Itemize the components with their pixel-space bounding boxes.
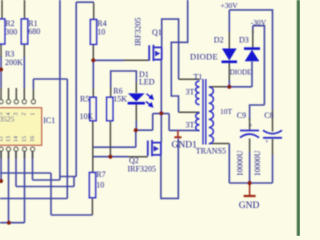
svg-text:DIODE: DIODE	[230, 69, 252, 77]
pin Q1 gate	[124, 59, 149, 61]
wire Q1 drain loop	[162, 19, 179, 79]
black component pins	[1, 0, 273, 215]
wire horizontal y186.5	[16, 186, 74, 188]
wire pin5 top stub blue	[32, 79, 34, 89]
svg-text:4: 4	[6, 113, 12, 116]
wire LED cathode to junction	[135, 121, 137, 130]
pin R4 top	[93, 3, 95, 20]
capacitor C8	[263, 130, 282, 133]
svg-text:GND1: GND1	[172, 141, 198, 151]
resistor R5	[90, 97, 96, 120]
wire pin13 vertical x8.5	[8, 151, 10, 223]
pin Q2 gate	[128, 156, 148, 158]
svg-text:10000U: 10000U	[253, 150, 262, 176]
wire secondary top y86.8	[226, 86, 252, 88]
wire horizontal y180 pin16 to x60	[33, 179, 60, 181]
wire C8 bottom	[272, 155, 274, 183]
svg-text:10: 10	[97, 28, 105, 37]
wire D2 cathode down to secondary	[228, 80, 230, 87]
node D2/secondary junction	[227, 85, 231, 89]
wire horizontal y2.2 to R4 column	[76, 1, 94, 3]
pin C9 column	[249, 118, 251, 152]
node pin12 junction	[0, 179, 3, 183]
svg-text:14: 14	[13, 136, 19, 142]
wire horizontal y176.5	[60, 176, 76, 178]
pin D2 bottom	[228, 63, 230, 80]
svg-text:-30V: -30V	[251, 18, 267, 27]
resistor R7	[89, 173, 95, 198]
svg-text:R5: R5	[80, 94, 89, 103]
wire Q2 source down U shape	[161, 139, 178, 199]
wire Q1 source vertical	[160, 60, 162, 143]
diode D2	[222, 49, 237, 61]
svg-text:12: 12	[0, 136, 4, 142]
pin above R2	[1, 0, 3, 19]
wire pin12 vertical x1	[0, 151, 2, 181]
svg-text:+: +	[265, 138, 269, 145]
wire Q1 gate net from R4 column	[93, 59, 124, 61]
wire horizontal y222.7	[0, 222, 25, 224]
wire: middle column	[93, 0, 200, 198]
svg-text:10000U: 10000U	[236, 150, 245, 176]
node bottom rail junction	[7, 221, 11, 225]
svg-text:1: 1	[31, 113, 37, 116]
svg-text:LED: LED	[139, 78, 155, 87]
wire -30V to D3	[253, 26, 265, 105]
svg-text:C9: C9	[237, 111, 246, 120]
transformer T1 core	[203, 79, 206, 145]
wire horizontal y113.6	[153, 113, 169, 115]
wire horizontal y79 from pin5 to x67.3	[33, 78, 67, 80]
wire vertical x67.3 from y79 to y198.5	[66, 79, 68, 199]
LED D1	[128, 93, 145, 101]
pin R5 bottom / R7 top column	[92, 121, 94, 173]
IC1 yellow box	[0, 108, 42, 145]
wire pin14 vertical x16	[15, 151, 17, 187]
wire vertical x152.7	[152, 114, 154, 131]
capacitor C9	[240, 130, 259, 132]
IC top pin circles	[0, 100, 35, 104]
svg-text:C8: C8	[264, 111, 273, 120]
wire C9 bottom	[249, 152, 251, 183]
pin IC bottom stubs	[1, 151, 33, 158]
svg-text:+: +	[249, 122, 253, 129]
wire pin16 vertical x32.5	[32, 151, 34, 180]
svg-text:Q2: Q2	[129, 156, 139, 165]
wire R4 to R5 column blue segment	[92, 59, 94, 89]
svg-text:3: 3	[14, 113, 20, 116]
wire horizontal y173	[0, 172, 51, 174]
svg-text:10T: 10T	[220, 107, 233, 116]
wire bottom rail y183	[229, 182, 272, 184]
svg-text:3T: 3T	[186, 87, 195, 96]
svg-text:300: 300	[5, 27, 17, 36]
node C9/GND junction	[248, 181, 252, 185]
transformer primary lower coil 3T	[196, 113, 200, 131]
wire horizontal y198.5 left edge to x67.3	[0, 198, 67, 200]
svg-text:15: 15	[22, 136, 28, 142]
wire: blue verticals left column	[0, 0, 94, 223]
transformer primary upper coil 3T	[196, 81, 200, 105]
wire jog to C9	[250, 105, 265, 120]
pin transformer center tap	[179, 111, 200, 113]
svg-text:D2: D2	[214, 35, 224, 44]
svg-text:10K: 10K	[80, 112, 94, 121]
svg-text:IRF3205: IRF3205	[128, 165, 156, 174]
node Q1 source junction	[159, 111, 163, 115]
svg-text:R7: R7	[96, 170, 105, 179]
wire jog vertical x74	[73, 177, 75, 187]
pin LED bottom	[135, 104, 137, 121]
svg-text:3T: 3T	[186, 121, 195, 130]
pin LED top	[135, 82, 137, 93]
pin transformer primary top	[179, 78, 200, 80]
svg-text:16: 16	[30, 136, 36, 142]
node R6/Q2 gate junction	[108, 155, 112, 159]
IC bottom pin circles	[0, 147, 35, 151]
wire horizontal y215 to R7	[51, 214, 92, 216]
pin R6 top	[110, 87, 112, 97]
svg-text:D3: D3	[239, 35, 249, 44]
svg-text:200K: 200K	[5, 58, 23, 67]
pin C8 column	[272, 110, 274, 155]
wire long vertical x60	[59, 0, 61, 180]
pin above R1	[24, 0, 26, 19]
transistor Q2	[148, 140, 161, 156]
pin R7 bottom	[91, 198, 93, 215]
svg-text:+30V: +30V	[221, 1, 239, 10]
wire junction to x152.7	[136, 129, 153, 131]
sheet border green line	[297, 0, 300, 236]
wire Q2 gate net y156.7	[93, 156, 128, 158]
resistor R6	[107, 97, 113, 120]
wire top right long vertical x187.7	[171, 0, 187, 112]
ground GND	[244, 183, 256, 196]
wire vertical x51	[50, 173, 52, 215]
svg-text:IC1: IC1	[43, 116, 55, 125]
node R4/Q1 gate junction	[91, 58, 95, 62]
transformer secondary coil 10T	[209, 87, 214, 144]
svg-text:Q1: Q1	[152, 28, 162, 37]
pin R1 bottom	[23, 44, 25, 57]
wire R5 bottom net y147.2	[93, 130, 136, 147]
wire +30V rail	[229, 10, 272, 110]
wire left column R2 to pin1	[0, 56, 2, 88]
svg-text:5: 5	[0, 113, 4, 116]
pin R2 bottom	[0, 44, 2, 57]
wire pin15 vertical x24.5	[24, 151, 26, 223]
ground GND1	[174, 130, 181, 137]
resistor R2	[0, 19, 5, 44]
wire R6/LED anode net y71	[111, 71, 137, 87]
resistor R1	[21, 19, 27, 44]
pin IC top stubs	[1, 88, 33, 100]
svg-text:13: 13	[6, 136, 12, 142]
node R2/R3 junction	[0, 67, 3, 71]
svg-text:IRF3205: IRF3205	[134, 18, 143, 46]
svg-text:DIODE: DIODE	[190, 52, 218, 62]
svg-text:10: 10	[96, 181, 104, 190]
svg-text:15K: 15K	[113, 95, 127, 104]
svg-text:T1: T1	[194, 72, 203, 81]
pin secondary top	[209, 86, 226, 88]
svg-text:GND: GND	[239, 201, 260, 211]
wire vertical x169.1	[168, 114, 170, 131]
resistor R4	[90, 20, 96, 45]
wire horizontal y130.4 to primary bottom	[169, 129, 199, 131]
pin R6 bottom	[109, 121, 111, 157]
svg-text:2: 2	[22, 113, 28, 116]
node LED cathode junction	[134, 128, 138, 132]
pin D2 top	[228, 32, 230, 49]
pin R4 bottom / R5 top column	[92, 44, 94, 97]
wire D3 anode down	[251, 62, 253, 87]
pin secondary bottom	[209, 143, 229, 145]
wire R1 column blue part	[23, 56, 25, 88]
wire secondary bottom	[228, 144, 230, 184]
wire: right side	[226, 10, 273, 183]
wire vertical x76.2 from top	[75, 2, 77, 176]
diode D3	[245, 50, 260, 62]
svg-text:TRANS5: TRANS5	[196, 147, 226, 156]
transistor Q1	[149, 45, 162, 61]
svg-text:680: 680	[28, 27, 40, 36]
pin D3 top	[252, 30, 254, 49]
